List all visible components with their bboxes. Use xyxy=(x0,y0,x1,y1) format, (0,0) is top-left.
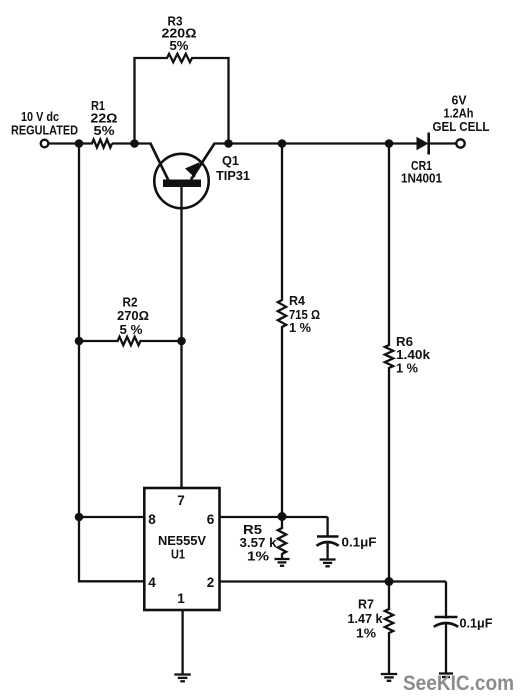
node pin2/R6/R7 xyxy=(385,577,394,586)
svg-text:1 %: 1 % xyxy=(396,362,418,376)
wire R1 to node B xyxy=(112,142,135,144)
node B xyxy=(130,139,139,148)
svg-text:1%: 1% xyxy=(356,627,376,641)
label 6V 1.2Ah GEL CELL xyxy=(433,94,490,135)
node E (R6 top) xyxy=(385,139,394,148)
svg-text:6: 6 xyxy=(207,512,215,527)
resistor R4 rail xyxy=(278,144,286,517)
output terminal xyxy=(456,139,464,147)
node C xyxy=(224,139,233,148)
svg-text:0.1μF: 0.1μF xyxy=(460,617,493,631)
svg-text:U1: U1 xyxy=(171,547,185,562)
svg-text:1N4001: 1N4001 xyxy=(401,172,442,186)
ground under C1 xyxy=(320,560,336,567)
svg-text:1%: 1% xyxy=(247,550,269,564)
diode CR1 xyxy=(401,133,442,186)
svg-text:5 %: 5 % xyxy=(120,323,143,337)
ground under R5 xyxy=(275,559,290,566)
svg-text:0.1μF: 0.1μF xyxy=(342,536,377,550)
wire to pin 8 xyxy=(79,516,144,518)
node pin6/R4/R5 xyxy=(278,512,287,521)
wire pin 2 xyxy=(220,580,447,582)
svg-text:1.2Ah: 1.2Ah xyxy=(444,107,474,121)
input terminal xyxy=(41,140,49,148)
svg-text:2: 2 xyxy=(207,575,215,590)
svg-text:8: 8 xyxy=(148,512,156,527)
transistor Q1 TIP31 xyxy=(151,144,251,209)
svg-text:1 %: 1 % xyxy=(289,321,311,335)
svg-text:10 V dc: 10 V dc xyxy=(21,110,59,124)
wire diode to output xyxy=(429,142,457,144)
wire pin 6 xyxy=(220,516,328,518)
svg-text:Q1: Q1 xyxy=(222,154,239,168)
svg-text:R6: R6 xyxy=(396,335,413,349)
resistor R2 xyxy=(79,337,182,345)
svg-text:270Ω: 270Ω xyxy=(117,309,149,323)
node R2/base rail xyxy=(177,337,186,346)
svg-text:5%: 5% xyxy=(94,124,115,138)
svg-text:5%: 5% xyxy=(170,39,189,53)
svg-text:1.40k: 1.40k xyxy=(396,348,430,362)
svg-text:1.47 k: 1.47 k xyxy=(348,612,383,626)
svg-text:SeeKIC.com: SeeKIC.com xyxy=(403,672,514,695)
svg-text:R2: R2 xyxy=(123,296,138,310)
resistor R3 loop xyxy=(135,54,229,144)
node left rail / pin8 xyxy=(75,513,84,522)
svg-text:R5: R5 xyxy=(243,523,262,537)
svg-text:R4: R4 xyxy=(289,294,305,308)
capacitor C2 0.1uF xyxy=(434,582,493,674)
node D (R4 top) xyxy=(278,139,287,148)
wire input to node A xyxy=(48,142,79,144)
svg-text:R7: R7 xyxy=(358,598,374,612)
svg-text:1: 1 xyxy=(177,591,185,606)
node A xyxy=(75,139,84,148)
svg-text:GEL CELL: GEL CELL xyxy=(433,120,490,134)
svg-text:6V: 6V xyxy=(452,94,468,108)
wire node C to diode xyxy=(229,142,418,144)
label 10 V dc REGULATED xyxy=(11,110,78,138)
ground under R7 xyxy=(381,674,397,681)
node left rail / R2 xyxy=(75,337,84,346)
capacitor C1 0.1uF xyxy=(317,517,377,560)
ground pin 1 xyxy=(174,675,191,682)
IC U1 NE555V xyxy=(144,488,219,610)
svg-text:TIP31: TIP31 xyxy=(216,169,250,183)
resistor R1 xyxy=(79,140,112,148)
wire left rail xyxy=(79,144,144,582)
svg-text:3.57 k: 3.57 k xyxy=(240,536,277,550)
svg-text:REGULATED: REGULATED xyxy=(11,124,78,138)
resistor R6 rail xyxy=(385,144,393,582)
wire Q1 base down to pin 7 xyxy=(180,187,182,488)
svg-text:7: 7 xyxy=(177,493,185,508)
wire node B stub to emitter xyxy=(135,142,152,144)
resistor R7 xyxy=(385,582,393,675)
svg-text:4: 4 xyxy=(148,575,156,590)
wire collector stub to node C xyxy=(214,142,229,144)
ground under C2 xyxy=(439,674,453,678)
svg-text:715 Ω: 715 Ω xyxy=(289,308,320,322)
resistor R5 xyxy=(278,517,286,560)
wire pin 1 to ground xyxy=(181,610,183,675)
